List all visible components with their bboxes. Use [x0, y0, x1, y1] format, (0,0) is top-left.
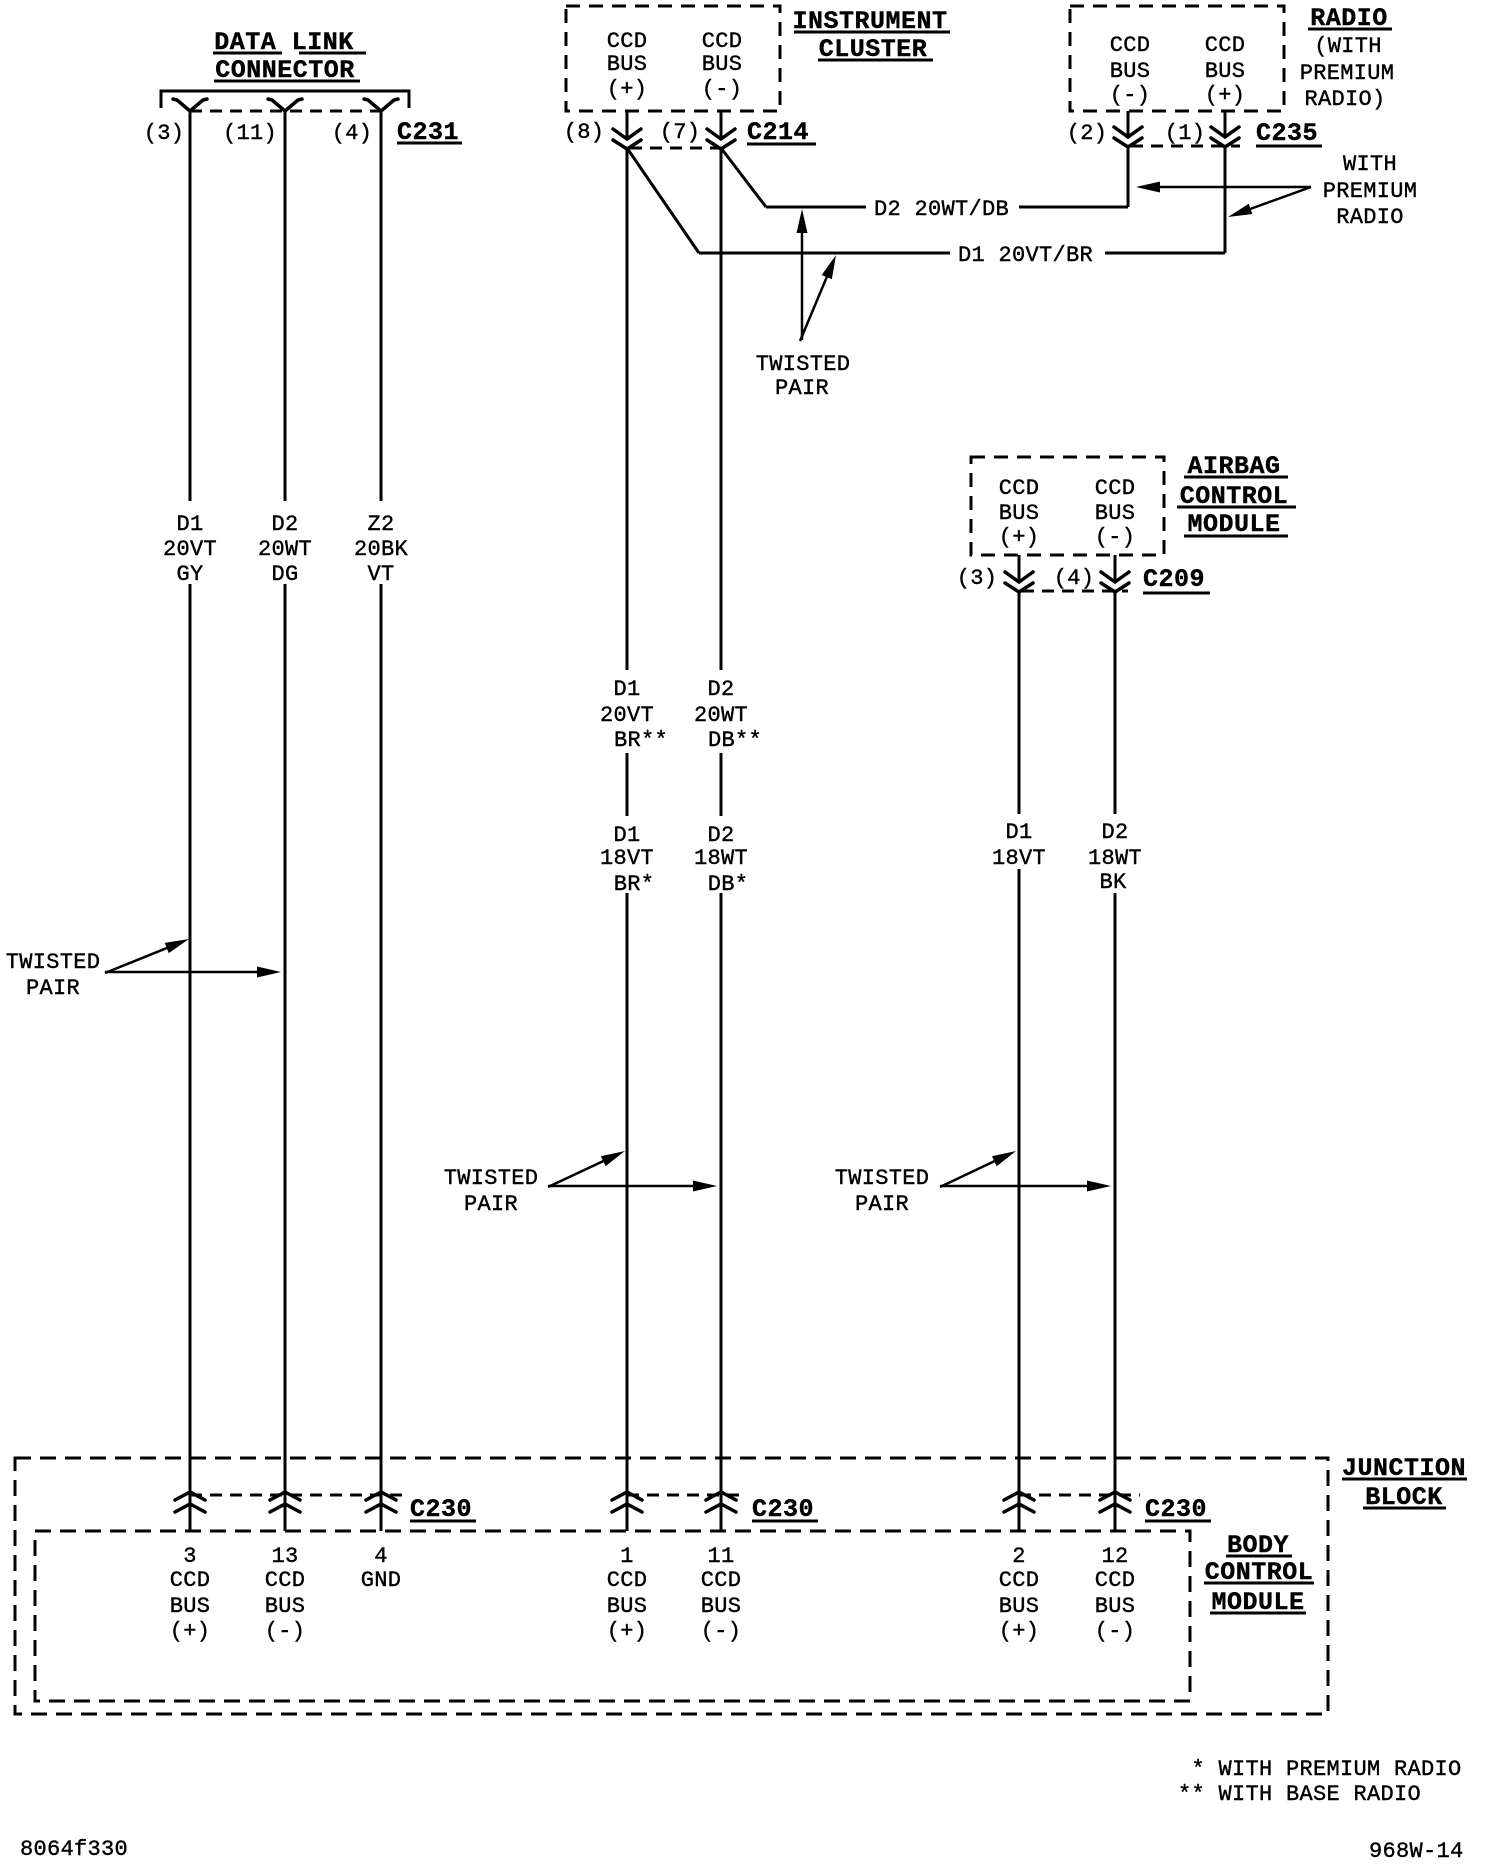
connector C230 pin 2 symbol: [1004, 1492, 1034, 1500]
svg-text:20VT: 20VT: [600, 703, 654, 728]
airbag CCD BUS (+) pin text: [999, 476, 1040, 550]
wire CCD bus (+) from cluster (segment 3): [626, 893, 629, 1531]
svg-text:Z2: Z2: [367, 512, 394, 537]
twisted pair label (cluster branch): [756, 352, 851, 401]
svg-text:20BK: 20BK: [354, 537, 409, 562]
wire airbag D2 (segment 2): [1114, 893, 1117, 1531]
with premium radio label: [1323, 152, 1418, 230]
wire radio pin 2 down to D2 line: [1127, 146, 1130, 207]
twisted pair arrow to cluster D1 wire: [548, 1160, 605, 1187]
wire radio pin 1 down to D1 line: [1224, 146, 1227, 253]
wire label D1 20VT BR**: [600, 677, 668, 753]
svg-text:DB*: DB*: [708, 872, 749, 897]
twisted pair label (cluster wires): [444, 1166, 539, 1217]
svg-text:20WT: 20WT: [694, 703, 748, 728]
wire stub airbag pin 4: [1114, 555, 1117, 583]
instrument cluster CCD BUS (-) pin text: [702, 29, 743, 102]
wire label D2 18WT BK: [1088, 820, 1142, 895]
airbag control module title: [1177, 452, 1296, 539]
svg-text:D1 20VT/BR: D1 20VT/BR: [958, 243, 1093, 268]
radio box: [1070, 6, 1284, 111]
svg-text:GND: GND: [361, 1568, 402, 1593]
BCM pin 3 CCD BUS (+): [170, 1544, 211, 1644]
instrument cluster box: [566, 6, 780, 111]
wire branch D1 diagonal from pin 8: [627, 148, 699, 253]
twisted pair arrow to D1 line: [800, 275, 828, 341]
svg-text:(+): (+): [607, 77, 648, 102]
wire airbag D1 (segment 1): [1018, 591, 1021, 814]
svg-text:CCD: CCD: [170, 1568, 211, 1593]
svg-text:968W-14: 968W-14: [1369, 1839, 1464, 1864]
svg-text:(-): (-): [701, 1619, 742, 1644]
wire Z2 20BK VT (lower): [380, 584, 383, 1531]
svg-text:BUS: BUS: [170, 1594, 211, 1619]
connector C230 dashed line (right group): [1019, 1494, 1140, 1497]
svg-text:** WITH BASE RADIO: ** WITH BASE RADIO: [1178, 1782, 1421, 1807]
svg-text:D1: D1: [613, 823, 640, 848]
svg-text:PAIR: PAIR: [464, 1192, 518, 1217]
svg-text:BUS: BUS: [1110, 59, 1151, 84]
twisted pair label (airbag wires): [835, 1166, 930, 1217]
svg-text:20WT: 20WT: [258, 537, 312, 562]
twisted pair arrow to D2 line: [801, 231, 804, 340]
svg-text:RADIO): RADIO): [1304, 87, 1385, 112]
connector C209 dashed line: [1022, 590, 1128, 593]
wire stub radio pin 1: [1224, 111, 1227, 138]
connector label C230 (left): [410, 1495, 476, 1524]
BCM pin 11 CCD BUS (-): [701, 1544, 742, 1644]
with premium radio arrow to pin 2 wire: [1158, 186, 1311, 189]
svg-text:VT: VT: [367, 562, 394, 587]
wire D1 20VT GY (upper): [189, 111, 192, 501]
wire label D2 18WT DB*: [694, 823, 748, 897]
airbag CCD BUS (-) pin text: [1095, 476, 1136, 550]
svg-text:C235: C235: [1256, 119, 1318, 148]
svg-text:(2): (2): [1067, 121, 1108, 146]
wire D2 20WT DG (upper): [284, 111, 287, 501]
data link connector bracket: [161, 91, 409, 108]
instrument cluster CCD BUS (+) pin text: [607, 29, 648, 102]
wire label D1 20VT GY: [163, 512, 217, 587]
wire stub cluster pin 8: [626, 111, 629, 140]
svg-text:PREMIUM: PREMIUM: [1300, 61, 1395, 86]
svg-text:(+): (+): [999, 1619, 1040, 1644]
connector C231 pin 3 symbol: [173, 99, 190, 111]
connector C230 pin 13 symbol: [270, 1492, 300, 1500]
svg-text:2: 2: [1012, 1544, 1026, 1569]
svg-text:D2: D2: [271, 512, 298, 537]
svg-text:1: 1: [620, 1544, 634, 1569]
svg-text:18VT: 18VT: [992, 846, 1046, 871]
with premium radio arrow to pin 1 wire: [1249, 187, 1311, 210]
svg-text:PAIR: PAIR: [775, 376, 829, 401]
svg-text:8064f330: 8064f330: [20, 1837, 128, 1862]
svg-text:BUS: BUS: [999, 501, 1040, 526]
svg-text:BUS: BUS: [607, 1594, 648, 1619]
svg-text:(8): (8): [564, 120, 605, 145]
svg-text:BR**: BR**: [614, 728, 668, 753]
radio title: [1300, 4, 1395, 112]
wire D2 20WT DG (lower): [284, 584, 287, 1531]
svg-text:PAIR: PAIR: [855, 1192, 909, 1217]
wire label Z2 20BK VT: [354, 512, 409, 587]
svg-text:12: 12: [1101, 1544, 1128, 1569]
twisted pair arrow to cluster D2 wire: [548, 1185, 695, 1188]
wire D1 20VT/BR horizontal (right): [1105, 252, 1225, 255]
connector label C235: [1256, 119, 1322, 148]
connector label C230 (right): [1145, 1495, 1211, 1524]
svg-text:TWISTED: TWISTED: [756, 352, 851, 377]
connector C230 pin 11 symbol: [706, 1492, 736, 1500]
svg-text:CCD: CCD: [265, 1568, 306, 1593]
wire CCD bus (+) from cluster (segment 1): [626, 148, 629, 670]
connector C230 dashed line (middle group): [627, 1494, 745, 1497]
wire airbag D2 (segment 1): [1114, 591, 1117, 814]
svg-text:(+): (+): [607, 1619, 648, 1644]
svg-text:D1: D1: [176, 512, 203, 537]
wire CCD bus (-) from cluster (segment 1): [720, 148, 723, 670]
connector label C209: [1143, 565, 1210, 594]
wire stub airbag pin 3: [1018, 555, 1021, 583]
data link connector title: [213, 28, 366, 85]
svg-text:BUS: BUS: [701, 1594, 742, 1619]
svg-text:D1: D1: [613, 677, 640, 702]
svg-text:BUS: BUS: [999, 1594, 1040, 1619]
connector C214 pin 8 symbol: [613, 129, 641, 139]
BCM pin 13 CCD BUS (-): [265, 1544, 306, 1644]
svg-text:BUS: BUS: [1095, 501, 1136, 526]
connector C209 pin 4 symbol: [1101, 572, 1129, 582]
connector label C230 (middle): [752, 1495, 818, 1524]
wire D2 20WT/DB horizontal (left): [766, 206, 866, 209]
svg-text:(1): (1): [1165, 121, 1206, 146]
svg-text:DB**: DB**: [708, 728, 762, 753]
airbag control module box: [971, 457, 1164, 555]
svg-text:(WITH: (WITH: [1314, 34, 1382, 59]
twisted pair label (left): [6, 950, 101, 1001]
svg-text:D2: D2: [1101, 820, 1128, 845]
twisted pair arrow to airbag D2 wire: [940, 1185, 1089, 1188]
svg-text:CCD: CCD: [1110, 33, 1151, 58]
svg-text:D2: D2: [707, 677, 734, 702]
svg-text:(+): (+): [1205, 83, 1246, 108]
svg-text:D2: D2: [707, 823, 734, 848]
svg-text:(4): (4): [332, 121, 373, 146]
svg-text:(3): (3): [144, 121, 185, 146]
wire CCD bus (+) from cluster (segment 2): [626, 753, 629, 816]
svg-text:C209: C209: [1143, 565, 1205, 594]
wire label D1 18VT BR*: [600, 823, 654, 897]
svg-text:18WT: 18WT: [1088, 846, 1142, 871]
svg-text:13: 13: [271, 1544, 298, 1569]
connector C214 dashed line: [630, 147, 722, 150]
svg-text:GY: GY: [176, 562, 203, 587]
connector C231 pin 11 symbol: [268, 99, 285, 111]
connector label C214: [747, 118, 816, 147]
svg-text:4: 4: [374, 1544, 388, 1569]
svg-text:(3): (3): [957, 566, 998, 591]
svg-text:WITH: WITH: [1343, 152, 1397, 177]
svg-text:CCD: CCD: [999, 1568, 1040, 1593]
BCM pin 12 CCD BUS (-): [1095, 1544, 1136, 1644]
connector label C231: [397, 118, 462, 147]
connector C230 pin 4 symbol: [366, 1492, 396, 1500]
svg-text:DG: DG: [271, 562, 298, 587]
wire Z2 20BK VT (upper): [380, 111, 383, 501]
svg-text:PAIR: PAIR: [26, 976, 80, 1001]
wire label D2 20WT DB**: [694, 677, 762, 753]
svg-text:BUS: BUS: [702, 52, 743, 77]
connector C235 dashed line: [1131, 145, 1240, 148]
svg-text:CCD: CCD: [607, 1568, 648, 1593]
svg-text:18VT: 18VT: [600, 846, 654, 871]
wire label D2 20WT DG: [258, 512, 312, 587]
connector C235 pin 2 symbol: [1114, 127, 1142, 137]
body control module box: [35, 1531, 1190, 1701]
radio CCD BUS (+) pin text: [1205, 33, 1246, 108]
svg-text:CCD: CCD: [702, 29, 743, 54]
svg-text:RADIO: RADIO: [1336, 205, 1404, 230]
svg-text:(+): (+): [999, 525, 1040, 550]
svg-text:(-): (-): [1110, 83, 1151, 108]
svg-text:CCD: CCD: [999, 476, 1040, 501]
svg-text:(7): (7): [660, 120, 701, 145]
svg-text:BK: BK: [1099, 870, 1127, 895]
BCM pin 1 CCD BUS (+): [607, 1544, 648, 1644]
junction block title: [1342, 1454, 1467, 1512]
svg-text:BUS: BUS: [1095, 1594, 1136, 1619]
connector C230 pin 12 symbol: [1100, 1492, 1130, 1500]
wire D1 20VT GY (lower): [189, 584, 192, 1531]
svg-text:(-): (-): [702, 77, 743, 102]
svg-text:TWISTED: TWISTED: [6, 950, 101, 975]
radio CCD BUS (-) pin text: [1110, 33, 1151, 108]
wire airbag D1 (segment 2): [1018, 869, 1021, 1531]
wire CCD bus (-) from cluster (segment 2): [720, 753, 723, 816]
junction block box: [15, 1458, 1328, 1714]
wire label D1 18VT: [992, 820, 1046, 871]
instrument cluster title: [792, 7, 950, 64]
connector C214 pin 7 symbol: [707, 129, 735, 139]
svg-text:(+): (+): [170, 1619, 211, 1644]
wire stub radio pin 2: [1127, 111, 1130, 138]
svg-text:* WITH PREMIUM RADIO: * WITH PREMIUM RADIO: [1178, 1757, 1462, 1782]
svg-text:20VT: 20VT: [163, 537, 217, 562]
connector C230 pin 3 symbol: [175, 1492, 205, 1500]
svg-text:CCD: CCD: [1095, 1568, 1136, 1593]
wire D2 20WT/DB horizontal (right): [1019, 206, 1128, 209]
svg-text:(-): (-): [1095, 1619, 1136, 1644]
connector C209 pin 3 symbol: [1005, 572, 1033, 582]
BCM pin 2 CCD BUS (+): [999, 1544, 1040, 1644]
svg-text:(-): (-): [1095, 525, 1136, 550]
svg-text:3: 3: [183, 1544, 197, 1569]
body control module title: [1204, 1531, 1314, 1617]
BCM pin 4 GND: [361, 1544, 402, 1593]
svg-text:(4): (4): [1054, 566, 1095, 591]
svg-text:CCD: CCD: [701, 1568, 742, 1593]
svg-text:BUS: BUS: [1205, 59, 1246, 84]
connector C231 dashed line: [190, 110, 381, 113]
connector C230 dashed line (left group): [190, 1494, 403, 1497]
svg-text:CCD: CCD: [1095, 476, 1136, 501]
wire D1 20VT/BR horizontal (left): [699, 252, 950, 255]
wire stub cluster pin 7: [720, 111, 723, 140]
twisted pair arrow to D2 wire: [105, 971, 259, 974]
twisted pair arrow to D1 wire: [105, 947, 169, 973]
svg-text:TWISTED: TWISTED: [444, 1166, 539, 1191]
svg-text:BR*: BR*: [614, 872, 655, 897]
connector C235 pin 1 symbol: [1211, 127, 1239, 137]
svg-text:(-): (-): [265, 1619, 306, 1644]
svg-text:CCD: CCD: [607, 29, 648, 54]
svg-text:PREMIUM: PREMIUM: [1323, 179, 1418, 204]
twisted pair arrow to airbag D1 wire: [940, 1160, 996, 1187]
svg-text:18WT: 18WT: [694, 846, 748, 871]
svg-text:(11): (11): [223, 121, 277, 146]
connector C230 pin 1 symbol: [612, 1492, 642, 1500]
svg-text:D1: D1: [1005, 820, 1032, 845]
svg-text:11: 11: [707, 1544, 734, 1569]
svg-text:D2 20WT/DB: D2 20WT/DB: [874, 197, 1009, 222]
wire branch D2 diagonal from pin 7: [721, 148, 766, 207]
svg-text:BUS: BUS: [265, 1594, 306, 1619]
connector C231 pin 4 symbol: [364, 99, 381, 111]
svg-text:CCD: CCD: [1205, 33, 1246, 58]
svg-text:BUS: BUS: [607, 52, 648, 77]
wire CCD bus (-) from cluster (segment 3): [720, 893, 723, 1531]
svg-text:TWISTED: TWISTED: [835, 1166, 930, 1191]
